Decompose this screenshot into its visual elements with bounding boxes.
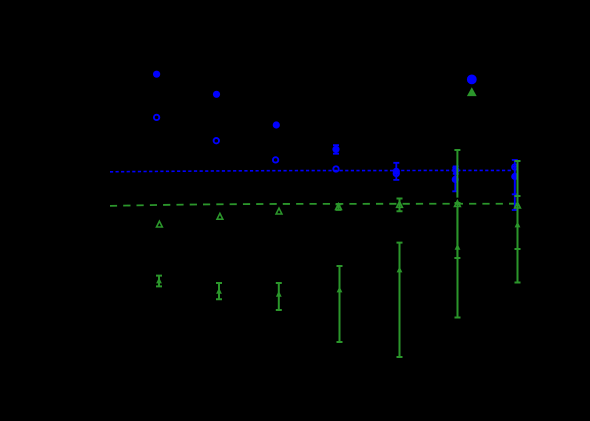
bar f1 xyxy=(156,276,162,287)
blue filled circle points xyxy=(153,71,518,183)
bar b6 xyxy=(452,168,458,192)
blue open circle points xyxy=(154,115,518,176)
green open-triangle series error bars xyxy=(336,150,521,258)
bar g6 xyxy=(454,150,460,258)
blue dotted asymptote line xyxy=(110,170,513,171)
bar f2 xyxy=(216,283,222,299)
bar f5 xyxy=(397,243,403,357)
bar f3 xyxy=(276,283,282,310)
bar g4 xyxy=(336,204,342,210)
bar f4 xyxy=(337,266,343,342)
blue filled-circle series error bars xyxy=(333,145,518,210)
bar open b6 xyxy=(453,166,459,174)
bar f7 xyxy=(515,196,521,283)
bar open b7 xyxy=(512,160,518,194)
bar b5 xyxy=(393,163,399,180)
bar b7 xyxy=(512,167,518,210)
green filled-triangle series error bars xyxy=(156,196,521,357)
green open triangle points xyxy=(157,201,521,227)
bar g5 xyxy=(397,199,403,212)
legend marker: blue filled circle xyxy=(467,75,477,85)
legend marker: green filled triangle xyxy=(467,87,477,96)
bar b4 xyxy=(333,145,339,154)
bar f6 xyxy=(455,203,461,318)
green filled triangle points xyxy=(156,221,520,296)
green dashed asymptote line xyxy=(110,204,517,206)
bar g7 xyxy=(515,161,521,249)
